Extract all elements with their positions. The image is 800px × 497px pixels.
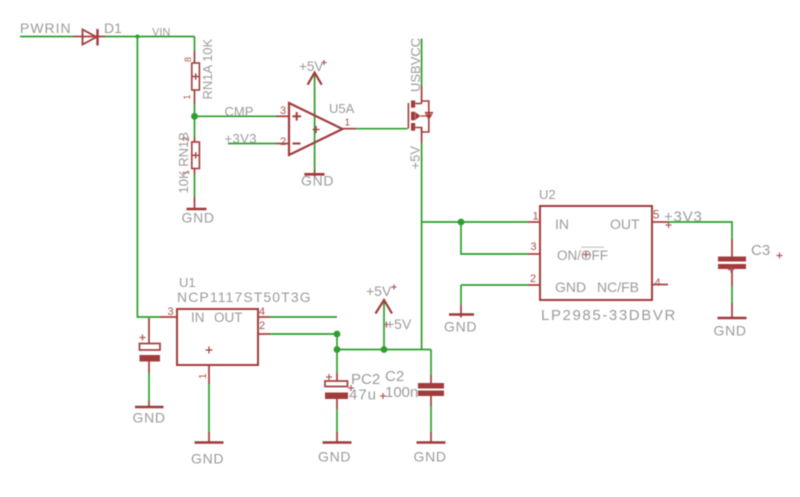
svg-text:GND: GND [133,410,166,426]
svg-text:IN: IN [191,310,205,325]
svg-text:100n: 100n [385,384,418,401]
svg-text:GND: GND [182,210,215,226]
svg-text:2: 2 [280,136,286,148]
svg-text:4: 4 [259,306,265,318]
svg-text:NCP1117ST50T3G: NCP1117ST50T3G [177,289,312,305]
svg-text:U5A: U5A [329,101,355,116]
svg-text:3: 3 [280,105,286,117]
svg-text:RN1A 10K: RN1A 10K [200,38,215,99]
svg-text:+5V: +5V [366,283,392,299]
svg-text:LP2985-33DBVR: LP2985-33DBVR [541,307,677,324]
svg-text:+3V3: +3V3 [664,209,703,226]
svg-text:GND: GND [444,319,477,335]
svg-text:+5V: +5V [386,316,412,332]
svg-text:USBVCC: USBVCC [408,38,423,92]
svg-text:2: 2 [259,320,265,332]
svg-text:1: 1 [181,170,191,175]
svg-text:+5V: +5V [299,59,323,74]
svg-text:3: 3 [531,241,537,253]
svg-text:+5V: +5V [408,146,423,170]
svg-text:47u: 47u [349,387,377,404]
svg-text:GND: GND [191,451,224,467]
svg-text:2: 2 [530,273,536,285]
svg-text:GND: GND [714,323,747,339]
svg-text:D1: D1 [104,20,122,36]
svg-text:C2: C2 [385,368,404,385]
svg-text:1: 1 [345,118,351,129]
svg-text:1: 1 [182,94,192,99]
svg-text:U2: U2 [539,187,556,202]
svg-text:1: 1 [198,373,209,379]
svg-text:GND: GND [301,173,334,189]
svg-text:NC/FB: NC/FB [597,279,639,295]
svg-text:4: 4 [655,277,661,289]
svg-text:VIN: VIN [152,27,170,39]
svg-text:OUT: OUT [214,310,243,325]
svg-text:3: 3 [168,306,174,318]
svg-text:OUT: OUT [610,216,640,232]
svg-text:+3V3: +3V3 [225,131,257,146]
svg-text:8: 8 [183,57,193,62]
svg-text:GND: GND [555,279,586,295]
svg-text:IN: IN [555,216,569,232]
svg-text:1: 1 [533,211,539,223]
svg-text:CMP: CMP [225,104,254,119]
svg-text:ON/OFF: ON/OFF [557,248,608,263]
svg-text:PC2: PC2 [351,371,380,388]
svg-text:5: 5 [653,210,659,222]
svg-text:U1: U1 [179,275,196,290]
svg-text:GND: GND [414,449,447,465]
svg-text:PWRIN: PWRIN [20,20,72,36]
svg-text:GND: GND [318,449,351,465]
svg-text:2: 2 [181,136,191,141]
svg-text:C3: C3 [751,242,770,259]
